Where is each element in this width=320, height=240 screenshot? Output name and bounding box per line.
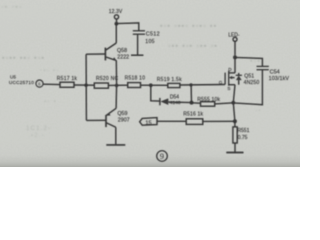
svg-text:R519 1.5k: R519 1.5k <box>157 77 182 83</box>
page number 9 <box>157 151 168 162</box>
node drain <box>233 55 237 59</box>
node sense <box>233 119 237 123</box>
wire drain to C54 <box>235 57 262 66</box>
svg-text:C512: C512 <box>146 31 160 37</box>
wire drain <box>234 57 236 73</box>
ground C512 <box>131 54 143 56</box>
svg-text:C54: C54 <box>270 70 280 76</box>
svg-text:9: 9 <box>160 152 164 161</box>
wire diode to node <box>168 101 191 104</box>
svg-text:105: 105 <box>145 39 155 45</box>
capacitor C54 <box>257 65 269 67</box>
svg-text:103/1kV: 103/1kV <box>269 76 290 82</box>
svg-text:R518 10: R518 10 <box>125 76 146 82</box>
node R518-R519 <box>149 83 153 87</box>
svg-text:▫▪▫ ▪▫: ▫▪▫ ▪▫ <box>40 68 60 74</box>
schematic ink <box>9 9 289 161</box>
wire R516 to node <box>203 120 235 122</box>
wire node up <box>190 85 192 103</box>
diode branch: drop wire <box>151 85 160 101</box>
svg-text:▪▫▪▪ ▪▪▫ ▪▫▪: ▪▫▪▪ ▪▪▫ ▪▫▪ <box>2 55 45 62</box>
resistor R551 <box>234 121 236 127</box>
wire C512 to ground <box>137 34 139 55</box>
svg-text:Q59: Q59 <box>117 111 127 117</box>
svg-text:1C1.2▫: 1C1.2▫ <box>26 126 51 132</box>
svg-text:S: S <box>227 86 230 91</box>
wire LED- to drain node <box>234 41 236 55</box>
svg-text:4N250: 4N250 <box>244 80 260 86</box>
net flag 15 <box>140 118 157 127</box>
svg-text:R520 NC: R520 NC <box>96 76 118 82</box>
ground R551 <box>226 152 243 154</box>
wire R555 to source node <box>215 103 234 104</box>
wire R551 to ground <box>234 143 236 152</box>
wire C54 to source node <box>233 70 262 105</box>
bottom scan shadow <box>0 155 300 167</box>
transistor Q59 <box>86 108 129 127</box>
svg-text:12.3V: 12.3V <box>109 9 123 15</box>
wire <box>74 84 94 86</box>
wire source to sense <box>233 103 235 122</box>
wire base rail <box>85 54 87 120</box>
wire source down <box>233 85 235 103</box>
wire circle to rail dot <box>116 19 118 22</box>
transistor Q58 <box>105 43 129 61</box>
wire collector Q58 <box>115 24 117 43</box>
svg-text:R517 1k: R517 1k <box>57 76 78 82</box>
wire flag to R516 <box>157 120 186 122</box>
svg-text:4148: 4148 <box>170 100 181 106</box>
wire base Q58 <box>86 53 105 55</box>
svg-text:.▪2.▫: .▪2.▫ <box>28 133 45 139</box>
wire collector Q59 to ground <box>115 127 117 144</box>
svg-text:▪▫ ▪: ▪▫ ▪ <box>44 99 57 105</box>
node base <box>84 83 88 87</box>
svg-text:G: G <box>219 80 223 85</box>
svg-text:Q51: Q51 <box>244 73 254 79</box>
wire emitter Q59 <box>115 85 118 108</box>
node LED- terminal <box>233 37 237 41</box>
ghost bleed-through text <box>1 4 262 139</box>
supply node circle <box>114 15 118 19</box>
svg-text:Q58: Q58 <box>117 48 127 54</box>
mosfet Q51 <box>219 67 260 91</box>
svg-text:15: 15 <box>145 120 151 126</box>
ground Q59 <box>106 144 125 146</box>
svg-text:2222: 2222 <box>117 55 129 61</box>
node source <box>231 101 235 105</box>
wire emitter Q58 to row <box>115 60 117 85</box>
svg-text:▫▪ ▫▪▫: ▫▪ ▫▪▫ <box>1 4 23 11</box>
capacitor C512 <box>133 30 145 32</box>
svg-text:▪▫▪: ▪▫▪ <box>250 58 261 65</box>
svg-text:▫▪: ▫▪ <box>255 108 262 114</box>
svg-text:0.75: 0.75 <box>238 135 248 141</box>
node emitter <box>115 84 119 88</box>
svg-text:D54: D54 <box>170 94 179 100</box>
body diode Q51 <box>236 73 242 85</box>
svg-text:UCC25710: UCC25710 <box>9 80 34 85</box>
svg-text:▫▪▪ ▪▫▪ ▫▪▪ ▫▪: ▫▪▪ ▪▫▪ ▫▪▪ ▫▪ <box>168 43 218 50</box>
node gate branch <box>189 83 192 86</box>
junction rail <box>115 22 119 26</box>
diode D54 <box>160 94 181 106</box>
wire rail to C512 <box>116 23 138 31</box>
wire to gate <box>180 84 225 87</box>
paper background <box>0 0 300 167</box>
svg-text:R516 1k: R516 1k <box>183 112 203 118</box>
node gate divider <box>190 101 194 105</box>
svg-text:2907: 2907 <box>118 118 130 124</box>
svg-text:▪▫▪ ▫▪▪▫ ▪▫▪▫ ▪▪: ▪▫▪ ▫▪▪▫ ▪▫▪▫ ▪▪ <box>160 23 217 30</box>
svg-text:R551: R551 <box>237 128 249 134</box>
wire <box>108 84 127 86</box>
wire main row <box>43 83 60 85</box>
wire <box>141 84 168 86</box>
